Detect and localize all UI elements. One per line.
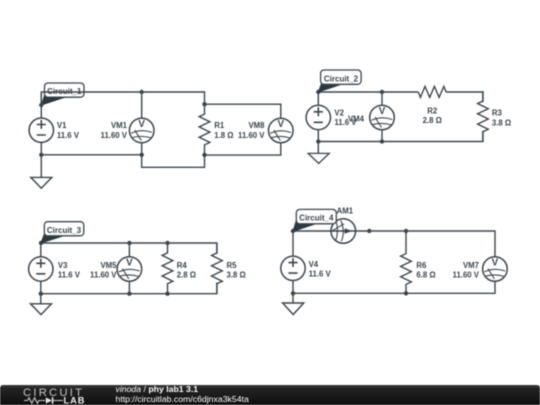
- svg-text:3.8 Ω: 3.8 Ω: [492, 119, 511, 128]
- wire V4 stubs: [292, 231, 294, 293]
- callout pointer Circuit_3: [41, 233, 64, 243]
- ammeter AM1 scale arc 1: [341, 220, 343, 241]
- wire top rail circuit 1 (node V1+ to R1 top): [41, 92, 204, 105]
- junction V3 top / callout tip: [39, 241, 43, 245]
- svg-text:2.8 Ω: 2.8 Ω: [423, 116, 442, 125]
- voltmeter VM1: [129, 118, 154, 143]
- svg-text:3.8 Ω: 3.8 Ω: [227, 271, 246, 280]
- svg-text:1.8 Ω: 1.8 Ω: [214, 131, 233, 140]
- ammeter AM1 scale arc 2: [336, 222, 338, 241]
- junction VM1 top: [140, 90, 144, 94]
- voltmeter VM8: [269, 118, 294, 143]
- wire bottom rail circuit 1 (ground net): [41, 154, 141, 156]
- svg-text:V3: V3: [58, 261, 68, 270]
- svg-text:R3: R3: [492, 108, 503, 117]
- callout box Circuit_4: [296, 209, 336, 223]
- junction net node right of AM1: [367, 229, 371, 233]
- ground circuit 1: [40, 155, 42, 178]
- junction V4 bottom / ground: [291, 291, 295, 295]
- junction R4 bottom: [165, 292, 169, 296]
- svg-text:V4: V4: [309, 260, 319, 269]
- wire V3 stubs: [40, 243, 42, 294]
- resistor R1: [199, 104, 210, 155]
- ammeter AM1 arrow: [345, 228, 353, 234]
- junction R1 top: [202, 102, 206, 106]
- voltmeter VM4: [370, 105, 395, 130]
- svg-text:11.60 V: 11.60 V: [101, 131, 128, 140]
- wire jog VM1 bottom to R1 bottom: [142, 155, 205, 168]
- junction callout tip on V1 stub: [39, 103, 43, 107]
- svg-text:VM7: VM7: [463, 261, 479, 270]
- svg-text:11.6 V: 11.6 V: [58, 271, 81, 280]
- wire V1 stubs: [40, 92, 42, 155]
- wire top rail circuit 4 (through AM1): [293, 231, 495, 257]
- svg-text:Circuit_2: Circuit_2: [324, 74, 359, 83]
- logo diode arrow: [46, 397, 52, 403]
- callout pointer Circuit_2: [318, 82, 341, 93]
- junction V1 bottom / ground: [39, 153, 43, 157]
- svg-text:11.60 V: 11.60 V: [238, 131, 265, 140]
- wire bottom rail circuit 2: [318, 131, 483, 142]
- resistor R4: [162, 243, 173, 294]
- svg-text:V1: V1: [57, 121, 67, 130]
- junction VM4 top: [380, 90, 384, 94]
- wire top rail circuit 3: [41, 243, 217, 254]
- svg-text:V2: V2: [334, 108, 344, 117]
- svg-text:11.6 V: 11.6 V: [57, 131, 80, 140]
- junction VM5 top: [127, 241, 131, 245]
- svg-text:VM8: VM8: [248, 121, 265, 130]
- svg-text:LAB: LAB: [64, 395, 86, 405]
- logo diode bar: [52, 397, 54, 404]
- callout pointer Circuit_4: [293, 220, 316, 231]
- voltmeter VM5: [117, 257, 142, 282]
- svg-text:11.6 V: 11.6 V: [309, 269, 332, 278]
- voltage source V3: [29, 257, 53, 281]
- ground circuit 3: [40, 294, 42, 304]
- wire V2 stubs: [317, 92, 319, 142]
- footer credit text: [116, 384, 249, 405]
- wire VM5 stubs: [128, 243, 130, 294]
- svg-text:R4: R4: [177, 261, 188, 270]
- junction R6 bottom: [404, 291, 408, 295]
- svg-text:R5: R5: [227, 261, 238, 270]
- wire VM4 stubs: [381, 92, 383, 142]
- junction R4 top: [165, 241, 169, 245]
- junction V3 bottom / ground: [39, 292, 43, 296]
- footer bar: [0, 385, 540, 405]
- junction V2 top / callout tip: [316, 90, 320, 94]
- ammeter AM1 needle: [332, 224, 344, 231]
- junction VM1 bottom: [140, 153, 144, 157]
- voltage source V2: [306, 105, 330, 129]
- wire VM1 stubs: [141, 92, 143, 155]
- svg-text:Circuit_4: Circuit_4: [299, 214, 334, 223]
- logo wire to LAB: [54, 399, 64, 401]
- wire bottom rail circuit 4: [293, 282, 495, 294]
- resistor R6: [401, 244, 412, 295]
- resistor R2: [418, 86, 446, 97]
- ground circuit 4: [292, 293, 294, 303]
- logo resistor zigzag: [24, 397, 45, 403]
- svg-text:2.8 Ω: 2.8 Ω: [177, 271, 196, 280]
- resistor R5: [212, 243, 223, 294]
- junction R1 bottom: [202, 153, 206, 157]
- ground circuit 2: [317, 142, 319, 154]
- junction R6 top: [404, 229, 408, 233]
- svg-text:11.60 V: 11.60 V: [90, 271, 117, 280]
- callout box Circuit_3: [44, 222, 84, 236]
- svg-text:VM5: VM5: [100, 261, 117, 270]
- wire R6 top stub: [405, 231, 407, 244]
- svg-text:R2: R2: [427, 106, 438, 115]
- voltage source V1: [29, 118, 53, 142]
- junction V4 top / callout tip: [291, 229, 295, 233]
- resistor R3: [478, 91, 489, 142]
- svg-text:Circuit_3: Circuit_3: [47, 226, 82, 235]
- svg-text:Circuit_1: Circuit_1: [47, 87, 82, 96]
- callout pointer Circuit_1: [42, 95, 66, 106]
- svg-text:11.60 V: 11.60 V: [453, 271, 480, 280]
- wire bottom rail circuit 3: [41, 283, 217, 294]
- ammeter AM1 body: [331, 219, 356, 244]
- svg-text:R1: R1: [214, 121, 225, 130]
- svg-text:AM1: AM1: [337, 206, 354, 215]
- svg-text:R6: R6: [416, 261, 427, 270]
- wire top rail circuit 2: [318, 92, 483, 102]
- junction V2 bottom / ground: [316, 139, 320, 143]
- svg-text:VM4: VM4: [348, 115, 365, 124]
- wire VM8 branch loop: [205, 104, 281, 155]
- svg-text:6.8 Ω: 6.8 Ω: [416, 271, 435, 280]
- junction VM4 bottom: [380, 139, 384, 143]
- voltmeter VM7: [483, 257, 508, 282]
- svg-text:VM1: VM1: [111, 121, 128, 130]
- callout box Circuit_2: [321, 70, 362, 84]
- callout box Circuit_1: [45, 83, 85, 97]
- voltage source V4: [281, 256, 305, 280]
- junction VM5 bottom: [127, 292, 131, 296]
